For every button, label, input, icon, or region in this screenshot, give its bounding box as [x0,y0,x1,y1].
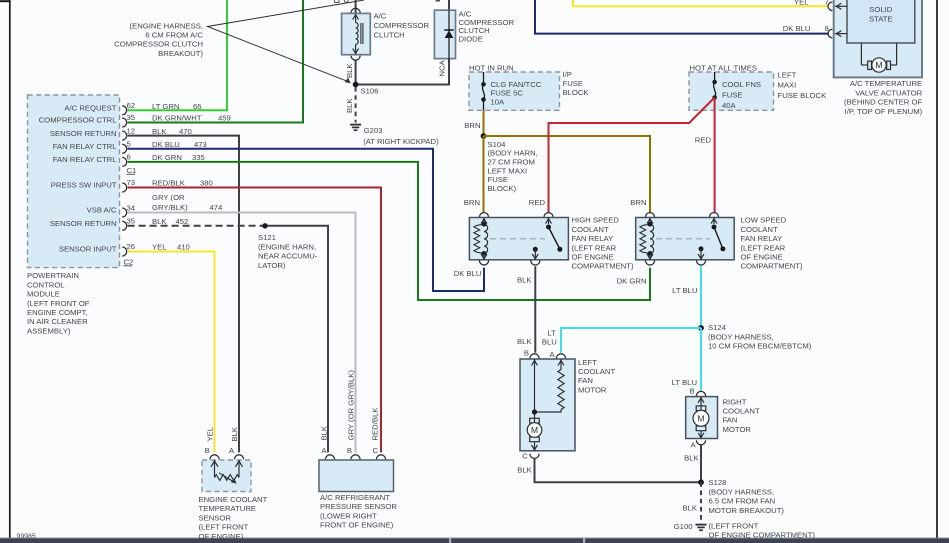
svg-text:7: 7 [825,0,829,6]
svg-text:99985: 99985 [17,534,36,541]
svg-text:SENSOR RETURN: SENSOR RETURN [50,129,117,138]
svg-text:BLK: BLK [517,465,532,474]
svg-text:34: 34 [127,204,136,213]
svg-text:PRESS SW INPUT: PRESS SW INPUT [51,181,117,190]
svg-text:6.5 CM FROM FAN: 6.5 CM FROM FAN [709,497,776,506]
svg-text:S106: S106 [361,87,379,96]
svg-text:5: 5 [127,140,131,149]
svg-text:10A: 10A [491,97,506,106]
svg-text:BLK: BLK [345,98,354,113]
svg-text:35: 35 [127,217,136,226]
svg-text:B: B [690,386,695,395]
svg-text:RED: RED [529,198,546,207]
svg-text:FUSE: FUSE [722,90,743,99]
svg-text:PRESSURE SENSOR: PRESSURE SENSOR [320,502,397,511]
svg-text:GRY/BLK): GRY/BLK) [152,203,188,212]
svg-text:OF ENGINE COMPARTMENT): OF ENGINE COMPARTMENT) [709,530,816,539]
svg-text:LEFT MAXI: LEFT MAXI [488,166,528,175]
svg-text:GRY (OR GRY/BLK): GRY (OR GRY/BLK) [346,370,355,441]
svg-text:BLOCK): BLOCK) [488,184,517,193]
svg-text:(LEFT FRONT OF: (LEFT FRONT OF [27,299,90,308]
svg-text:POWERTRAIN: POWERTRAIN [27,271,79,280]
svg-text:FUSE: FUSE [563,79,584,88]
svg-text:NEAR ACCUMU-: NEAR ACCUMU- [258,252,318,261]
svg-text:HIGH SPEED: HIGH SPEED [572,216,620,225]
svg-text:BLK: BLK [320,425,329,440]
svg-text:SOLID: SOLID [869,5,893,14]
svg-text:(BODY HARN,: (BODY HARN, [488,149,538,158]
svg-text:ENGINE COOLANT: ENGINE COOLANT [199,495,268,504]
svg-text:BLK: BLK [517,276,532,285]
svg-text:SENSOR INPUT: SENSOR INPUT [59,245,117,254]
svg-text:YEL: YEL [152,243,167,252]
svg-text:(ENGINE HARNESS,: (ENGINE HARNESS, [130,21,203,30]
svg-text:459: 459 [218,114,231,123]
svg-text:DK BLU: DK BLU [454,269,482,278]
svg-text:(BODY HARNESS,: (BODY HARNESS, [708,332,774,341]
svg-text:YEL: YEL [794,0,809,6]
svg-text:MOTOR: MOTOR [578,385,607,394]
svg-text:I/P, TOP OF PLENUM): I/P, TOP OF PLENUM) [845,107,923,116]
svg-text:NCA: NCA [438,59,447,76]
svg-text:A: A [691,440,697,449]
svg-text:12: 12 [127,126,136,135]
svg-text:C: C [372,446,378,455]
svg-text:BLK: BLK [152,127,167,136]
svg-text:FAN RELAY CTRL: FAN RELAY CTRL [53,155,118,164]
svg-text:LATOR): LATOR) [258,261,286,270]
svg-text:COMPARTMENT): COMPARTMENT) [572,262,635,271]
svg-text:STATE: STATE [869,15,893,24]
svg-text:M: M [697,413,704,423]
svg-text:BLK: BLK [152,217,167,226]
svg-text:COMPRESSOR CTRL: COMPRESSOR CTRL [39,116,117,125]
svg-text:DK GRN/WHT: DK GRN/WHT [152,114,202,123]
svg-text:RED: RED [695,135,712,144]
svg-text:35: 35 [127,113,136,122]
svg-text:C1: C1 [127,166,137,175]
svg-text:A/C TEMPERATURE: A/C TEMPERATURE [850,79,922,88]
svg-text:COMPARTMENT): COMPARTMENT) [741,262,804,271]
svg-text:FAN RELAY CTRL: FAN RELAY CTRL [53,142,118,151]
svg-text:A: A [321,446,327,455]
svg-text:BLK: BLK [682,503,697,512]
svg-text:YEL: YEL [205,426,214,441]
svg-text:G100: G100 [674,522,693,531]
svg-text:G203: G203 [364,126,383,135]
svg-text:FAN RELAY: FAN RELAY [741,234,783,243]
svg-text:6: 6 [127,153,131,162]
svg-text:M: M [875,60,882,70]
svg-text:OF ENGINE): OF ENGINE) [199,532,244,541]
svg-text:COMPRESSOR CLUTCH: COMPRESSOR CLUTCH [114,40,203,49]
svg-text:DK GRN: DK GRN [617,277,647,286]
svg-text:FAN RELAY: FAN RELAY [572,234,614,243]
svg-text:RED/BLK: RED/BLK [152,179,186,188]
svg-text:26: 26 [127,242,136,251]
svg-text:(BEHIND CENTER OF: (BEHIND CENTER OF [844,98,922,107]
svg-text:(LEFT FRONT: (LEFT FRONT [709,521,759,530]
svg-text:BLK: BLK [230,426,239,441]
svg-text:MOTOR BREAKOUT): MOTOR BREAKOUT) [709,506,785,515]
svg-text:COOLANT: COOLANT [741,225,778,234]
svg-text:335: 335 [192,153,205,162]
svg-text:CLG FAN/TCC: CLG FAN/TCC [491,80,542,89]
svg-text:BRN: BRN [630,198,646,207]
svg-text:S121: S121 [258,233,276,242]
svg-text:MOTOR: MOTOR [723,425,752,434]
svg-text:BLOCK: BLOCK [563,88,590,97]
svg-text:OF ENGINE: OF ENGINE [741,253,783,262]
svg-text:B: B [205,446,210,455]
svg-text:LT BLU: LT BLU [672,286,697,295]
svg-text:S124: S124 [708,323,727,332]
svg-text:380: 380 [200,179,213,188]
svg-text:B: B [524,348,529,357]
svg-text:LT: LT [547,329,556,338]
svg-text:VSB A/C: VSB A/C [87,206,117,215]
svg-text:CLUTCH: CLUTCH [374,31,405,40]
svg-text:FRONT OF ENGINE): FRONT OF ENGINE) [320,521,394,530]
svg-text:LEFT: LEFT [578,358,597,367]
svg-text:S104: S104 [488,140,507,149]
svg-text:C: C [522,452,528,461]
svg-text:IN AIR CLEANER: IN AIR CLEANER [27,317,88,326]
svg-text:A/C REQUEST: A/C REQUEST [64,104,116,113]
svg-text:27 CM FROM: 27 CM FROM [488,158,535,167]
svg-text:S128: S128 [709,478,727,487]
svg-text:COOL FNS: COOL FNS [722,80,761,89]
svg-text:473: 473 [194,140,207,149]
svg-text:40A: 40A [722,101,737,110]
svg-text:6 CM FROM A/C: 6 CM FROM A/C [145,31,203,40]
svg-text:470: 470 [179,127,192,136]
svg-text:M: M [531,425,538,435]
svg-text:COOLANT: COOLANT [572,225,609,234]
svg-text:FUSE BLOCK: FUSE BLOCK [778,91,828,100]
svg-text:A: A [229,446,235,455]
svg-text:BLK: BLK [517,337,532,346]
svg-text:ASSEMBLY): ASSEMBLY) [27,326,71,335]
svg-text:BREAKOUT): BREAKOUT) [158,49,203,58]
svg-text:COOLANT: COOLANT [723,407,760,416]
svg-text:LOW SPEED: LOW SPEED [741,216,787,225]
svg-text:TEMPERATURE: TEMPERATURE [199,504,257,513]
svg-text:FAN: FAN [578,376,593,385]
svg-text:DK BLU: DK BLU [783,24,811,33]
svg-text:(LEFT FRONT: (LEFT FRONT [199,523,249,532]
svg-text:SENSOR: SENSOR [199,513,232,522]
svg-text:DK GRN: DK GRN [152,153,182,162]
svg-text:GRY (OR: GRY (OR [152,193,185,202]
svg-text:A/C: A/C [374,11,387,20]
svg-text:(LOWER RIGHT: (LOWER RIGHT [320,511,377,520]
svg-text:B: B [347,446,352,455]
svg-text:HOT AT ALL TIMES: HOT AT ALL TIMES [690,63,758,72]
svg-text:(LEFT REAR: (LEFT REAR [572,243,617,252]
svg-text:BLK: BLK [345,63,354,78]
svg-text:(LEFT REAR: (LEFT REAR [741,243,786,252]
svg-text:MODULE: MODULE [27,290,60,299]
svg-text:DK BLU: DK BLU [152,140,180,149]
svg-text:COMPRESSOR: COMPRESSOR [374,21,430,30]
svg-text:A: A [550,350,556,359]
svg-text:RED/BLK: RED/BLK [371,407,380,441]
svg-text:RIGHT: RIGHT [723,398,747,407]
svg-text:FAN: FAN [723,416,738,425]
svg-text:(AT RIGHT KICKPAD): (AT RIGHT KICKPAD) [363,137,439,146]
svg-text:OF ENGINE: OF ENGINE [572,253,614,262]
svg-text:LEFT: LEFT [778,71,797,80]
svg-text:HOT IN RUN: HOT IN RUN [469,63,514,72]
svg-text:ENGINE COMPT,: ENGINE COMPT, [27,308,88,317]
svg-text:DIODE: DIODE [459,34,483,43]
svg-text:410: 410 [177,243,190,252]
svg-text:C2: C2 [124,257,134,266]
svg-text:452: 452 [176,217,189,226]
svg-text:474: 474 [210,203,224,212]
svg-text:BLU: BLU [542,338,557,347]
svg-text:BRN: BRN [464,198,480,207]
svg-text:I/P: I/P [563,70,572,79]
svg-text:10 CM FROM EBCM/EBTCM): 10 CM FROM EBCM/EBTCM) [708,342,812,351]
svg-text:62: 62 [127,101,136,110]
svg-text:(ENGINE HARN,: (ENGINE HARN, [258,242,316,251]
svg-text:COOLANT: COOLANT [578,367,615,376]
svg-text:VALVE ACTUATOR: VALVE ACTUATOR [855,89,922,98]
svg-text:BLK: BLK [684,453,699,462]
svg-text:BRN: BRN [464,121,480,130]
svg-text:73: 73 [127,178,136,187]
svg-text:CONTROL: CONTROL [27,280,65,289]
svg-text:MAXI: MAXI [778,81,797,90]
svg-text:FUSE: FUSE [488,175,509,184]
svg-text:SENSOR RETURN: SENSOR RETURN [50,219,117,228]
svg-text:(BODY HARNESS,: (BODY HARNESS, [709,487,775,496]
svg-text:8: 8 [825,24,829,33]
svg-text:A/C REFRIGERANT: A/C REFRIGERANT [320,493,390,502]
